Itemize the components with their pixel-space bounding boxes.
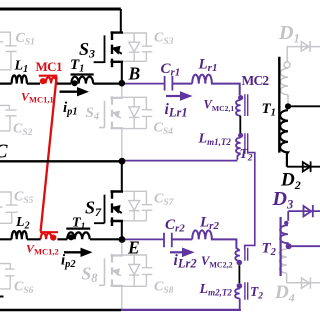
svg-text:B: B [128,64,141,84]
svg-text:MC2: MC2 [242,73,270,88]
svg-text:MC1: MC1 [36,59,62,74]
svg-text:E: E [127,238,140,258]
svg-text:C: C [0,142,9,163]
